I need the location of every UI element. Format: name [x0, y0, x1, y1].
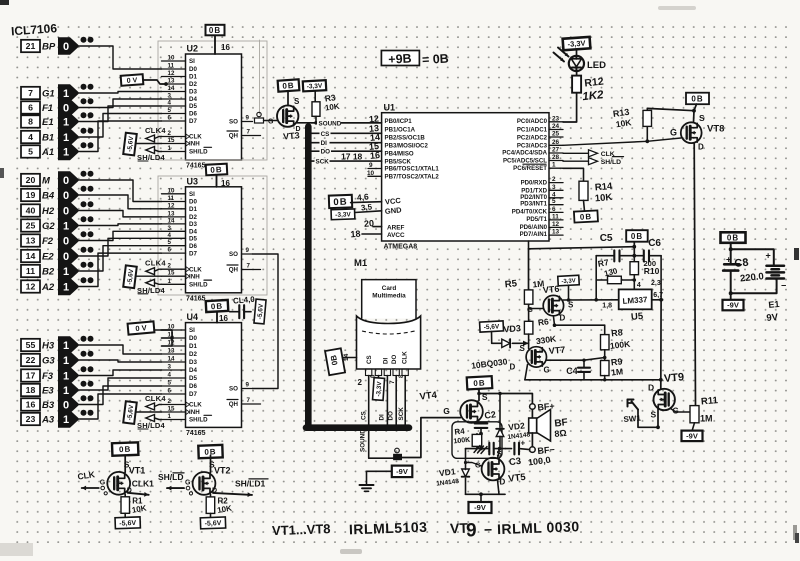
svg-text:SH/LD: SH/LD — [189, 417, 208, 424]
svg-text:-5,6V: -5,6V — [484, 323, 501, 331]
wire R5 to VT6 gate — [529, 304, 544, 308]
input arrow VT2 — [167, 487, 184, 489]
svg-text:7: 7 — [247, 129, 251, 136]
svg-text:26: 26 — [552, 139, 560, 146]
svg-text:R4: R4 — [454, 426, 466, 436]
OB box above VT4 — [467, 376, 493, 389]
svg-text:10K: 10K — [594, 192, 612, 204]
svg-text:1: 1 — [168, 145, 172, 152]
buffer arrow SH/LD4 — [146, 415, 155, 422]
svg-text:5: 5 — [168, 239, 172, 246]
wire B2-D6 — [80, 246, 162, 271]
svg-text:40: 40 — [26, 206, 36, 216]
svg-text:0B: 0B — [282, 81, 295, 91]
svg-text:DI: DI — [321, 140, 328, 147]
svg-text:1: 1 — [63, 370, 69, 382]
svg-text:10: 10 — [367, 170, 375, 177]
svg-text:0B: 0B — [580, 212, 593, 222]
svg-text:1: 1 — [63, 146, 69, 158]
svg-text:4,6: 4,6 — [356, 191, 369, 202]
svg-text:1: 1 — [168, 413, 172, 420]
wire E1-D5 — [80, 106, 162, 122]
svg-text:0: 0 — [63, 190, 69, 202]
wire A2-D7 — [80, 253, 162, 286]
svg-text:G: G — [670, 128, 677, 138]
OB box above VT8 — [686, 93, 709, 105]
faint pencil outline around U3 — [158, 176, 267, 295]
svg-text:D: D — [510, 363, 516, 372]
svg-text:D2: D2 — [189, 214, 197, 221]
svg-text:VT4: VT4 — [419, 390, 438, 403]
pad on U2.SO wire — [255, 118, 264, 123]
logic state blob M=0 — [58, 171, 80, 188]
resistor R6 — [528, 309, 530, 322]
svg-text:G3: G3 — [42, 356, 55, 367]
svg-text:S: S — [294, 97, 300, 106]
svg-text:1: 1 — [63, 132, 69, 144]
voltage box -5,6V right of CL4,0 — [254, 299, 266, 324]
svg-text:H2: H2 — [42, 206, 55, 217]
bus dots H3 — [81, 336, 87, 342]
svg-text:-3,3V: -3,3V — [375, 381, 383, 397]
svg-text:16: 16 — [370, 150, 381, 161]
svg-text:2: 2 — [168, 130, 172, 137]
svg-text:6: 6 — [168, 247, 172, 254]
svg-text:DO: DO — [387, 411, 394, 421]
svg-text:U4: U4 — [187, 312, 199, 322]
logic state blob BP=0 — [58, 37, 80, 54]
logic state blob B4=0 — [58, 186, 80, 203]
speaker BF — [531, 409, 533, 418]
wire jumper to VT4 gate — [401, 418, 460, 458]
wire C8 to bottom rail — [730, 271, 732, 294]
svg-text:3: 3 — [168, 225, 172, 232]
svg-text:55: 55 — [26, 340, 36, 350]
OB box above U2 — [206, 25, 225, 36]
CLK output arrow at pin 27 — [589, 150, 598, 157]
svg-text:-5,6V: -5,6V — [257, 303, 265, 320]
svg-text:20: 20 — [26, 175, 36, 185]
svg-text:0 V: 0 V — [135, 323, 147, 333]
rounded enclosure around R4 VD2 — [452, 422, 502, 459]
OB box between U2 and U3 — [206, 164, 228, 176]
input E3 pin box 18 — [21, 384, 40, 396]
input F1 pin box 6 — [21, 101, 40, 113]
svg-text:15: 15 — [168, 406, 175, 413]
svg-text:R6: R6 — [537, 316, 549, 327]
svg-text:S: S — [651, 410, 657, 420]
U2 left pins — [162, 55, 212, 156]
svg-text:11: 11 — [26, 266, 35, 276]
svg-text:-5,6V: -5,6V — [119, 520, 136, 528]
wire VT7 drain to bottom rail — [525, 365, 528, 380]
svg-text:R10: R10 — [644, 266, 660, 276]
svg-text:22: 22 — [26, 355, 36, 365]
svg-text:13: 13 — [168, 78, 175, 85]
svg-text:D4: D4 — [189, 96, 197, 103]
bus dots E3 — [81, 381, 87, 387]
svg-text:QH: QH — [229, 401, 239, 408]
svg-text:1: 1 — [63, 385, 69, 397]
svg-text:3: 3 — [168, 364, 172, 371]
input B4 pin box 19 — [21, 189, 40, 201]
voltage box -9V battery minus — [723, 300, 744, 311]
logic state blob E3=1 — [58, 381, 80, 398]
svg-text:6: 6 — [552, 206, 556, 213]
svg-text:1: 1 — [63, 88, 69, 100]
svg-text:2: 2 — [552, 176, 556, 183]
wire OB to VT4 source rail — [478, 389, 480, 401]
svg-text:19: 19 — [26, 190, 36, 200]
battery bottom rail — [731, 279, 777, 294]
wire from U1 bottom to rail corner — [528, 241, 530, 249]
input H3 pin box 55 — [21, 339, 40, 351]
svg-text:13: 13 — [26, 236, 36, 246]
svg-text:-9V: -9V — [474, 503, 486, 512]
svg-text:PC5/ADC5/SCL: PC5/ADC5/SCL — [503, 158, 547, 165]
svg-text:B3: B3 — [42, 400, 55, 411]
svg-text:PB4/MISO: PB4/MISO — [385, 151, 414, 158]
svg-text:PC2/ADC2: PC2/ADC2 — [517, 135, 548, 142]
svg-text:DO: DO — [321, 149, 331, 156]
svg-text:2: 2 — [168, 263, 172, 270]
wire -9V to ground — [367, 471, 392, 485]
wire R6 to VT7 source — [528, 334, 530, 348]
capacitor C2 — [480, 422, 481, 425]
svg-text:B4: B4 — [42, 191, 55, 202]
svg-text:+9B: +9B — [388, 51, 412, 66]
svg-text:VT1...VT8: VT1...VT8 — [272, 521, 331, 538]
svg-text:9V: 9V — [766, 312, 779, 324]
svg-text:BF−: BF− — [537, 444, 555, 455]
thick bus wire horizontal — [306, 424, 409, 431]
wire VT8 drain down to R11 — [694, 143, 695, 406]
svg-text:-9V: -9V — [727, 301, 739, 310]
svg-text:7: 7 — [247, 397, 251, 404]
svg-text:G: G — [443, 406, 450, 416]
input F3 pin box 17 — [21, 369, 40, 381]
svg-text:LM337: LM337 — [622, 295, 648, 306]
input H2 pin box 40 — [21, 204, 40, 216]
logic state blob A1=1 — [58, 143, 80, 160]
bus dots G3 — [81, 351, 87, 357]
svg-text:1: 1 — [168, 278, 172, 285]
wire R7 branch down to regulator input — [595, 280, 597, 300]
pin stubs 9 10 XTAL — [368, 168, 382, 170]
svg-text:14: 14 — [343, 353, 350, 361]
transistor VT2 — [193, 472, 216, 495]
wire BP to U2.D0 — [80, 46, 162, 69]
svg-text:D1: D1 — [189, 206, 197, 213]
svg-text:1M: 1M — [611, 366, 624, 377]
LED VD — [569, 56, 584, 71]
svg-text:D: D — [648, 383, 654, 393]
resistor R3 — [314, 91, 316, 102]
transistor VT5 — [482, 458, 505, 481]
svg-text:S: S — [568, 301, 574, 310]
svg-text:VT1: VT1 — [129, 465, 146, 475]
svg-text:14: 14 — [26, 251, 36, 261]
battery top rail — [731, 249, 774, 265]
svg-text:13: 13 — [168, 348, 175, 355]
svg-text:D: D — [698, 143, 704, 152]
svg-text:S: S — [482, 392, 488, 402]
svg-text:14: 14 — [168, 356, 175, 363]
svg-text:D7: D7 — [189, 391, 197, 398]
regulator U5 LM337 — [619, 289, 652, 309]
svg-text:21: 21 — [26, 41, 36, 51]
bus dots B3 — [81, 395, 87, 401]
AREF stub pin 20 — [373, 226, 382, 228]
wires 0V to U4.SI D0 D1 — [154, 330, 172, 346]
svg-text:PD5/T1: PD5/T1 — [526, 216, 547, 223]
svg-text:0B: 0B — [210, 165, 223, 175]
svg-text:PC0/ADC0: PC0/ADC0 — [517, 118, 548, 125]
bus dots G2 — [81, 216, 87, 222]
U3 left pins — [162, 187, 212, 288]
svg-text:+: + — [521, 439, 526, 448]
svg-text:E2: E2 — [42, 252, 54, 263]
input G3 pin box 22 — [21, 354, 40, 366]
svg-text:25: 25 — [552, 131, 560, 138]
svg-text:28: 28 — [552, 154, 560, 161]
svg-text:SCK: SCK — [398, 407, 405, 421]
svg-text:1: 1 — [63, 281, 69, 293]
wire OB to VCC — [351, 201, 382, 204]
svg-text:D1: D1 — [189, 74, 197, 81]
svg-text:E1: E1 — [42, 117, 54, 128]
svg-text:G2: G2 — [42, 221, 55, 232]
svg-text:1: 1 — [63, 340, 69, 352]
voltage box -5,6V below R2 — [210, 513, 212, 517]
voltage box -9V below R11 — [692, 423, 695, 431]
bus dots A3 — [81, 410, 87, 416]
svg-text:15: 15 — [168, 137, 175, 144]
wire OB to VT3 source — [287, 91, 289, 106]
svg-text:D: D — [127, 487, 132, 494]
svg-text:3: 3 — [168, 93, 172, 100]
IC U3 74165 body — [186, 187, 242, 293]
battery E1 cells — [767, 265, 785, 268]
svg-text:DI: DI — [383, 358, 390, 364]
svg-text:D2: D2 — [189, 351, 197, 358]
svg-text:CS: CS — [321, 131, 330, 138]
svg-text:QH: QH — [229, 267, 239, 274]
svg-text:4: 4 — [28, 132, 33, 142]
svg-text:DI: DI — [379, 414, 386, 421]
node box 0V for U4 — [128, 321, 155, 334]
svg-text:-3,3V: -3,3V — [567, 39, 586, 49]
wire VT9 gate to R11 — [671, 409, 696, 413]
buffer arrow SH/LD4 — [146, 147, 155, 154]
svg-text:C2: C2 — [484, 409, 497, 421]
bus dots A2 — [81, 277, 87, 283]
svg-text:0: 0 — [63, 175, 69, 187]
resistor R8 — [604, 325, 606, 334]
input G1 pin box 7 — [21, 87, 40, 99]
svg-text:4: 4 — [168, 100, 172, 107]
svg-text:R11: R11 — [701, 395, 720, 407]
transistor VT8 — [681, 122, 702, 143]
svg-text:VT2: VT2 — [214, 465, 231, 475]
logic state blob E1=1 — [58, 113, 80, 130]
svg-text:0 V: 0 V — [127, 77, 138, 85]
wire B4-D1 — [80, 195, 162, 209]
svg-text:1: 1 — [63, 220, 69, 232]
svg-text:U5: U5 — [631, 311, 645, 323]
svg-text:D5: D5 — [189, 375, 197, 382]
voltage box -5,6V below R1 — [124, 513, 126, 517]
svg-text:1: 1 — [63, 266, 69, 278]
svg-text:F2: F2 — [42, 236, 54, 247]
svg-text:20: 20 — [364, 218, 375, 229]
svg-text:INH: INH — [189, 273, 200, 280]
svg-text:CS: CS — [366, 355, 373, 364]
svg-text:0B: 0B — [727, 234, 739, 243]
wire G3-D3 — [80, 360, 162, 362]
svg-text:1K2: 1K2 — [582, 89, 605, 103]
svg-text:D0: D0 — [189, 66, 197, 73]
svg-text:PD0/RXD: PD0/RXD — [521, 180, 548, 187]
svg-text:7: 7 — [28, 88, 33, 98]
svg-text:-5,6V: -5,6V — [205, 520, 222, 528]
wire R13 top to VT8 source node — [647, 108, 694, 110]
wire -3,3V to LED — [576, 50, 578, 56]
audio top rail to BF+ — [479, 394, 532, 404]
svg-text:1M: 1M — [700, 414, 713, 424]
svg-text:D4: D4 — [189, 367, 197, 374]
wire node to VT8 S — [693, 111, 696, 123]
svg-text:9: 9 — [246, 247, 250, 254]
svg-text:4: 4 — [168, 232, 172, 239]
capacitor C5 — [596, 255, 613, 257]
voltage box -9V below VT5 — [469, 502, 492, 513]
svg-text:BP: BP — [42, 42, 56, 53]
svg-text:PB2/SS/OC1B: PB2/SS/OC1B — [385, 135, 426, 142]
svg-text:D: D — [296, 126, 301, 133]
svg-text:E1: E1 — [768, 299, 780, 310]
wire B1-D6 — [80, 114, 162, 138]
capacitor C3 — [506, 448, 512, 450]
svg-text:SO: SO — [229, 119, 238, 126]
svg-text:Multimedia: Multimedia — [372, 293, 406, 300]
svg-text:8Ω: 8Ω — [554, 428, 567, 439]
wire B3-D6 — [80, 386, 162, 405]
svg-text:-3,3V: -3,3V — [307, 83, 324, 91]
svg-text:74165: 74165 — [186, 295, 206, 302]
voltage box -9V near SOUND — [392, 466, 413, 478]
coupling capacitor to VT5 — [488, 443, 490, 455]
svg-text:0B: 0B — [473, 378, 486, 388]
svg-text:D2: D2 — [189, 81, 197, 88]
svg-text:C4: C4 — [566, 366, 578, 376]
svg-text:7: 7 — [247, 263, 251, 270]
svg-text:D3: D3 — [189, 89, 197, 96]
svg-text:1: 1 — [63, 116, 69, 128]
bus dots BP — [81, 37, 87, 43]
wire OB to VT2 source — [210, 455, 212, 472]
bus dots B1 — [81, 128, 87, 134]
wire VT5 drain down — [498, 480, 500, 494]
input BP pin box 21 — [21, 40, 40, 52]
svg-text:24: 24 — [552, 123, 560, 130]
svg-text:C5: C5 — [600, 233, 613, 244]
transistor VT4 — [460, 400, 483, 423]
card M1 body — [357, 316, 421, 369]
logic state blob E2=0 — [58, 247, 80, 264]
svg-text:IRLML5103: IRLML5103 — [349, 519, 428, 538]
svg-text:D0: D0 — [189, 335, 197, 342]
svg-text:SI: SI — [189, 191, 195, 198]
wire rail to -9V — [480, 494, 482, 501]
svg-text:17 18: 17 18 — [341, 152, 363, 162]
wire E2-D5 — [80, 238, 162, 256]
svg-text:INH: INH — [189, 409, 200, 416]
svg-text:4: 4 — [168, 372, 172, 379]
svg-text:M: M — [42, 176, 51, 187]
wire A1-D7 — [80, 121, 162, 152]
svg-text:CS: CS — [361, 411, 368, 420]
svg-text:PB3/MOSI/OC2: PB3/MOSI/OC2 — [385, 143, 429, 150]
wire G1-D3 — [80, 92, 162, 94]
svg-text:0: 0 — [63, 235, 69, 247]
OB box above C8 — [721, 232, 746, 243]
voltage box -3,3V above LED — [563, 37, 591, 50]
resistor R14 on RESET — [563, 168, 584, 181]
logic state blob F3=1 — [58, 367, 80, 384]
svg-text:+: + — [766, 251, 771, 261]
svg-text:VD3: VD3 — [503, 323, 521, 334]
transistor VT1 — [107, 472, 130, 495]
svg-text:A3: A3 — [41, 415, 55, 426]
svg-text:10: 10 — [168, 55, 175, 62]
bus dots F2 — [81, 231, 87, 237]
bus dots F1 — [81, 98, 87, 104]
svg-text:0B: 0B — [329, 354, 340, 366]
terminal BF+ — [530, 404, 536, 410]
buffer arrow SH/LD4 — [146, 279, 155, 286]
U1 right pin stubs and numbers — [549, 115, 563, 235]
svg-text:VT9: VT9 — [663, 371, 684, 385]
transistor VT6 — [543, 295, 563, 315]
svg-text:0: 0 — [63, 399, 69, 411]
svg-text:PD6/AIN0: PD6/AIN0 — [520, 224, 548, 231]
resistor R12 — [576, 70, 578, 76]
svg-text:10: 10 — [168, 187, 175, 194]
svg-text:PD7/AIN1: PD7/AIN1 — [520, 231, 548, 238]
wire junction to -9V box — [730, 293, 732, 300]
svg-text:23: 23 — [552, 115, 560, 122]
svg-text:9: 9 — [466, 521, 477, 542]
svg-text:U2: U2 — [187, 44, 199, 54]
wire E3-D5 — [80, 378, 162, 390]
svg-text:VT5: VT5 — [508, 472, 527, 485]
logic state blob F2=0 — [58, 232, 80, 249]
svg-text:PD4/T0/XCK: PD4/T0/XCK — [512, 209, 548, 216]
wire OB to VT1 source — [124, 455, 126, 472]
svg-text:D4: D4 — [189, 229, 197, 236]
input B1 pin box 4 — [21, 131, 40, 143]
logic state blob H3=1 — [58, 336, 80, 353]
svg-text:SOUND: SOUND — [360, 429, 367, 452]
svg-text:CLK4: CLK4 — [145, 394, 166, 403]
svg-text:-9V: -9V — [686, 432, 698, 441]
svg-text:0: 0 — [63, 102, 69, 114]
svg-text:SI: SI — [189, 58, 195, 65]
U4 left pins — [162, 324, 212, 424]
U1 left pin names — [385, 118, 440, 180]
voltage box -5,6V left of VD3 — [480, 321, 504, 332]
